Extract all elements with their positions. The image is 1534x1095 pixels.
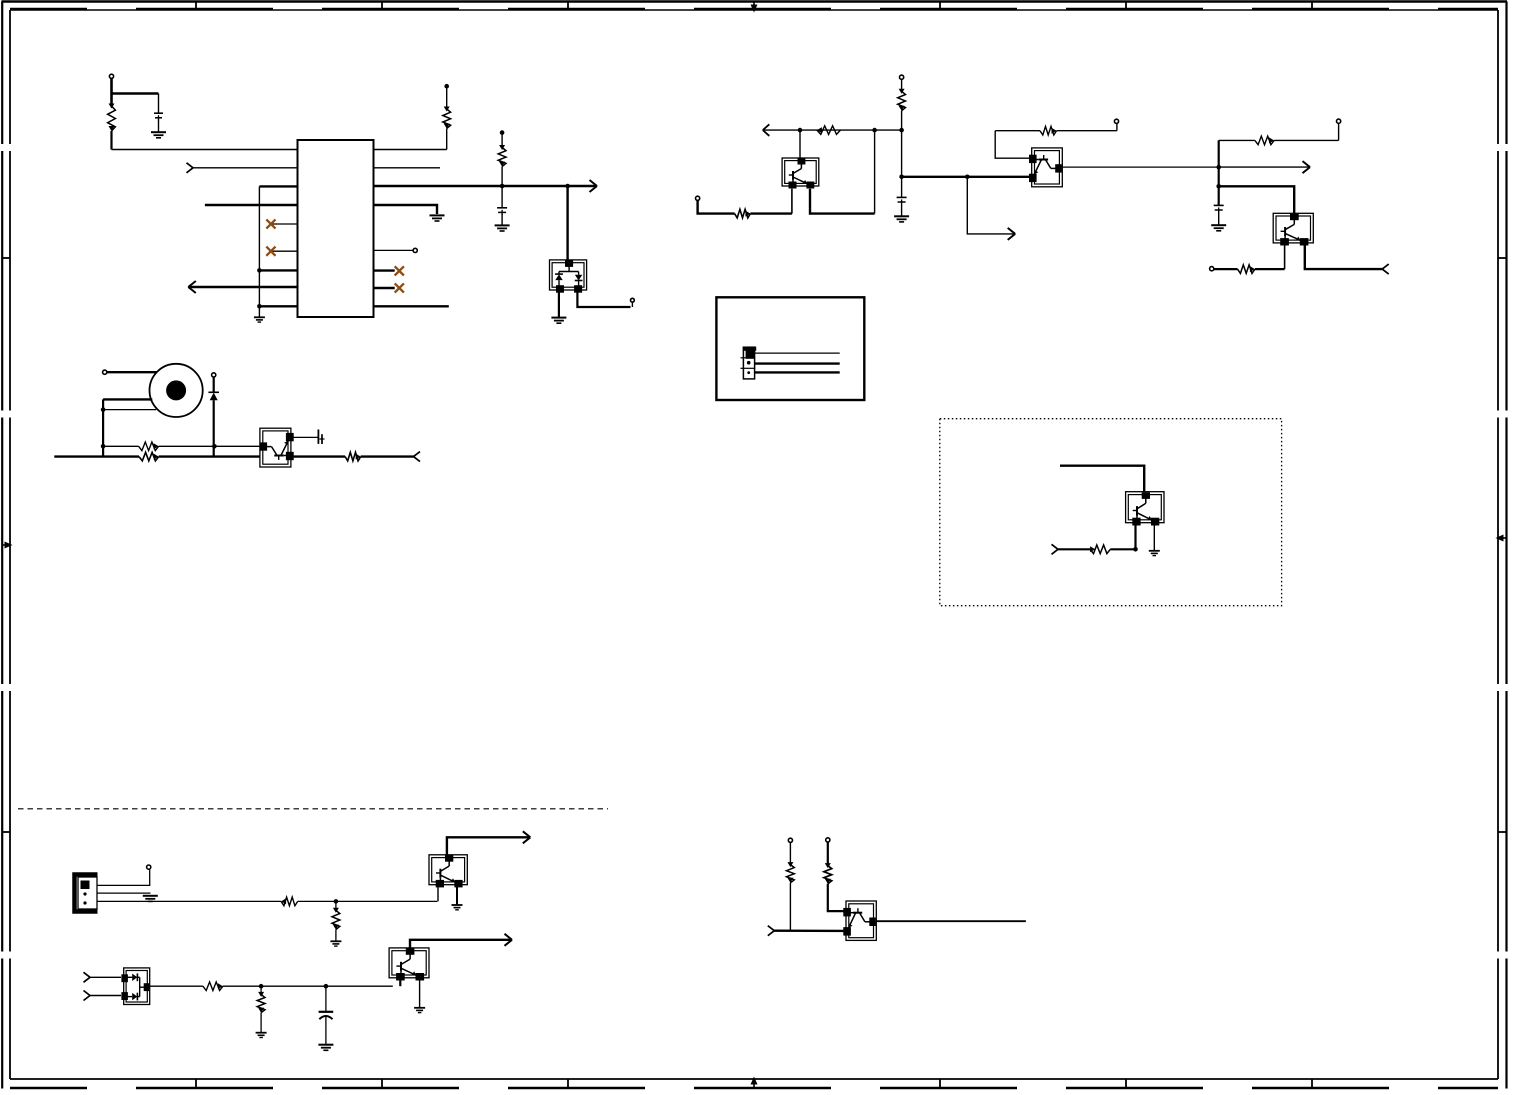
resistor R13 [1090, 545, 1110, 554]
no-connect X1 [266, 219, 275, 228]
wire [1274, 139, 1339, 141]
resistor R6 [345, 452, 361, 461]
terminal J5 [900, 75, 904, 79]
wire [298, 900, 438, 902]
base leg [1284, 244, 1286, 270]
wire [901, 111, 903, 198]
wire [291, 455, 345, 457]
branch wire [967, 177, 1013, 234]
resistor R2 [443, 107, 451, 129]
transistor Q7 package [429, 855, 467, 888]
junction [324, 984, 329, 989]
wire [750, 212, 792, 214]
wire [755, 352, 840, 354]
resistor R9 [735, 209, 751, 218]
capacitor C4 [897, 197, 907, 204]
section separator dashed line [18, 808, 608, 810]
terminal [147, 865, 151, 869]
junction [872, 128, 877, 133]
wire [789, 883, 791, 931]
wire [501, 167, 503, 208]
wire pin6 [271, 250, 298, 252]
right center arrow marker [1496, 535, 1507, 542]
collector wire [1062, 166, 1218, 168]
wire pin14 [374, 249, 414, 251]
ground [894, 216, 909, 222]
wire [214, 445, 260, 447]
wire [1060, 466, 1144, 492]
transistor Q6 package [1126, 492, 1164, 526]
ground [254, 317, 265, 322]
emitter leg [456, 885, 458, 905]
wire pin2 [193, 167, 298, 169]
wire pin16 [374, 287, 395, 289]
top center arrow marker [751, 2, 758, 13]
IC U1 [298, 140, 374, 317]
wire [755, 362, 840, 364]
arrowhead [505, 934, 513, 946]
ground [414, 1008, 425, 1013]
wire [110, 131, 112, 150]
resistor R10 [1040, 126, 1057, 135]
left border zone ticks [2, 258, 11, 832]
wire pin4 [205, 204, 298, 206]
arrowhead [763, 124, 770, 136]
resistor R5 [139, 452, 159, 461]
signal arrow wire [1219, 166, 1309, 168]
emitter leg [419, 978, 421, 1008]
no-connect X2 [266, 247, 275, 256]
collector out wire [902, 176, 966, 178]
junction [259, 984, 264, 989]
wire [791, 189, 793, 214]
arrowhead [590, 180, 598, 192]
bus wire [102, 399, 104, 456]
terminal J6 [696, 196, 700, 200]
collector out wire [447, 837, 529, 855]
wire [1110, 548, 1135, 550]
wire [213, 400, 215, 456]
resistor R12 [1238, 265, 1255, 274]
junction [965, 175, 970, 180]
opto diodes U2 package [121, 968, 149, 1005]
junction [334, 899, 339, 904]
off-page chevron [187, 163, 194, 173]
wire [98, 869, 150, 885]
top border zone ticks [196, 2, 1312, 11]
wire [361, 455, 414, 457]
wire [446, 129, 448, 150]
transistor Q4 package [1029, 148, 1062, 187]
wire [966, 176, 1032, 178]
ground [452, 905, 463, 910]
wire [1214, 268, 1238, 270]
transistor Q9 package [843, 901, 876, 940]
wire pin11 [374, 167, 441, 169]
motor M1 [150, 364, 203, 417]
wire [98, 900, 282, 902]
wire [901, 79, 903, 90]
resistor R8 [817, 126, 841, 135]
wire [150, 985, 203, 987]
connector J4 [741, 347, 757, 379]
wire [110, 79, 113, 105]
emitter leg [1153, 522, 1155, 551]
wire pin10 [374, 149, 447, 151]
wire [90, 995, 121, 997]
junction [500, 184, 505, 189]
terminal [631, 298, 635, 302]
collector out wire [410, 940, 511, 949]
junction [1216, 165, 1221, 170]
ground [430, 215, 445, 221]
wire [1255, 268, 1285, 270]
wire pin17 [374, 305, 449, 307]
junction [101, 444, 106, 449]
junction [257, 304, 262, 309]
connector J10 [75, 875, 98, 912]
wire pin12 signal out [374, 185, 596, 187]
wire [223, 985, 393, 987]
wire [90, 976, 121, 978]
wire pin9 [259, 305, 297, 307]
junction [798, 128, 803, 133]
capacitor C6 [319, 1012, 334, 1019]
dual diode D1 package [550, 260, 587, 293]
ground [143, 896, 158, 902]
terminal J3 [212, 373, 216, 377]
wire [103, 409, 156, 411]
emitter wire [1305, 244, 1382, 270]
arrowhead [188, 281, 196, 293]
option area dotted box [940, 419, 1282, 606]
wire [158, 94, 160, 113]
wire [158, 120, 160, 133]
resistor R18 [787, 862, 795, 883]
ground [256, 1033, 267, 1038]
base feed wire [1219, 186, 1295, 213]
junction [212, 444, 217, 449]
bus wire [1218, 140, 1220, 205]
wire [1057, 130, 1117, 132]
wire [501, 133, 503, 147]
ground [318, 1045, 333, 1051]
ground [151, 132, 166, 138]
junction [565, 184, 570, 189]
wire [1219, 139, 1255, 141]
ground [330, 941, 341, 946]
wire [995, 130, 1040, 132]
junction [1133, 547, 1138, 552]
arrowhead [1008, 228, 1016, 240]
no-connect X3 [395, 266, 404, 275]
junction [899, 128, 904, 133]
wire pin13 [374, 205, 438, 214]
wire [103, 445, 139, 447]
base wire [995, 131, 1031, 159]
wire [291, 436, 318, 438]
bus wire [258, 186, 260, 317]
resistor R16 [203, 982, 223, 991]
wire [159, 455, 261, 457]
emitter wire [810, 189, 875, 214]
wire [213, 377, 215, 392]
wire [103, 398, 152, 400]
ground [495, 225, 510, 231]
capacitor C5 [1214, 205, 1224, 212]
terminal J11 [788, 838, 792, 842]
resistor R14 [281, 897, 298, 906]
wire [901, 205, 903, 217]
bottom border zone ticks [196, 1079, 1312, 1089]
wire [107, 371, 157, 373]
ground [1149, 551, 1160, 556]
resistor R15 [332, 908, 340, 930]
junction [257, 268, 262, 273]
base wire [763, 129, 902, 131]
wire pin8 arrow out [188, 286, 297, 288]
wire [325, 986, 327, 1012]
resistor R19 [824, 863, 832, 884]
wire [577, 290, 630, 307]
off-page chevron [414, 452, 421, 462]
left center arrow marker [2, 542, 13, 549]
transistor Q2 package [260, 428, 294, 467]
connector detail box [716, 297, 864, 400]
wire pin5 [271, 223, 298, 225]
wire [799, 130, 801, 158]
wire [755, 371, 840, 373]
junction [1216, 184, 1221, 189]
arrowhead [523, 831, 531, 843]
wire [159, 445, 215, 447]
wire [98, 892, 151, 894]
wire [698, 200, 735, 213]
resistor R4 [139, 442, 159, 451]
wire [501, 214, 503, 225]
wire pin7 [259, 269, 297, 271]
wire [1058, 548, 1090, 550]
resistor R11 [1255, 136, 1274, 145]
base leg [437, 885, 439, 902]
wire [828, 884, 847, 911]
wire pin15 [374, 269, 395, 271]
terminal J12 [826, 838, 830, 842]
off-page chevron [1052, 544, 1059, 554]
right border zone ticks [1498, 258, 1507, 832]
output wire [876, 920, 1026, 922]
wire VCC rail [112, 149, 298, 151]
capacitor C2 [497, 208, 507, 215]
terminal J1 [109, 74, 113, 78]
resistor R1 [108, 104, 116, 132]
wire [558, 290, 560, 317]
terminal J2 [103, 370, 107, 374]
pull-up R2 [444, 84, 449, 89]
base leg [1134, 522, 1136, 549]
terminal J7 [1114, 119, 1118, 123]
ground [1211, 225, 1226, 231]
terminal J8 [1337, 119, 1341, 123]
resistor R17 [257, 992, 265, 1013]
resistor R3 [498, 145, 506, 167]
off-page chevron [84, 991, 91, 1001]
wire to Q1 [566, 186, 568, 260]
wire pin3 [259, 185, 297, 187]
base leg [399, 978, 401, 987]
no-connect X4 [395, 283, 404, 292]
terminal J9 [1210, 267, 1214, 271]
transistor Q8 package [389, 948, 429, 981]
off-page chevron [84, 972, 91, 982]
transistor Q5 package [1273, 213, 1313, 245]
junction [899, 175, 904, 180]
wire [774, 930, 846, 933]
capacitor C3 [318, 430, 324, 445]
wire [1218, 212, 1220, 225]
resistor R7 [898, 89, 906, 111]
ground [551, 318, 566, 324]
off-page chevron [768, 926, 775, 936]
wire [112, 92, 159, 95]
wire [325, 1017, 327, 1045]
main wire [54, 455, 139, 457]
arrowhead [1303, 161, 1311, 173]
pull-up R3 terminal [500, 130, 505, 135]
junction [101, 407, 106, 412]
capacitor C1 [154, 113, 163, 120]
diode D2 [208, 392, 219, 400]
bottom center arrow marker [751, 1077, 758, 1089]
terminal [413, 248, 417, 252]
transistor Q3 package [782, 158, 819, 189]
off-page chevron [1382, 264, 1389, 274]
